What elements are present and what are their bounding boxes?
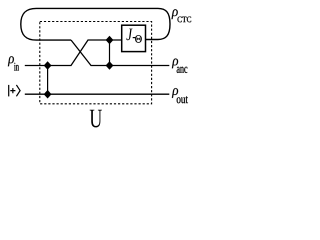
label rho_out: [172, 88, 178, 98]
label rho_anc: [172, 59, 178, 69]
label Theta of subscript: [135, 35, 142, 43]
gate 2 diamond on top wire: [106, 36, 114, 45]
label ket angle bracket: [16, 85, 20, 96]
label U: [90, 110, 102, 128]
label rho_in: [8, 56, 14, 66]
gate 2 vertical connector: [109, 40, 111, 66]
box J_-Theta: [122, 25, 146, 51]
label minus of subscript: [133, 37, 136, 39]
wire descending through swap to rho_anc output: [71, 40, 169, 66]
gate 1 diamond on bottom wire: [44, 90, 52, 99]
label rho_CTC: [172, 9, 178, 19]
wire CTC loop: J output, right cap, top line, left cap, re-entry: [21, 8, 170, 40]
wire rho_in rising through swap to J-box input: [25, 40, 122, 66]
dashed box U: [40, 22, 152, 104]
gate 1 vertical connector: [47, 66, 49, 95]
label J in box: [126, 29, 132, 41]
label ket plus: [10, 88, 15, 93]
gate 2 diamond on middle wire: [106, 61, 114, 70]
label ket |+> bar: [8, 85, 10, 97]
gate 1 diamond on middle wire: [44, 61, 52, 70]
wire |+> to rho_out: [25, 93, 170, 95]
